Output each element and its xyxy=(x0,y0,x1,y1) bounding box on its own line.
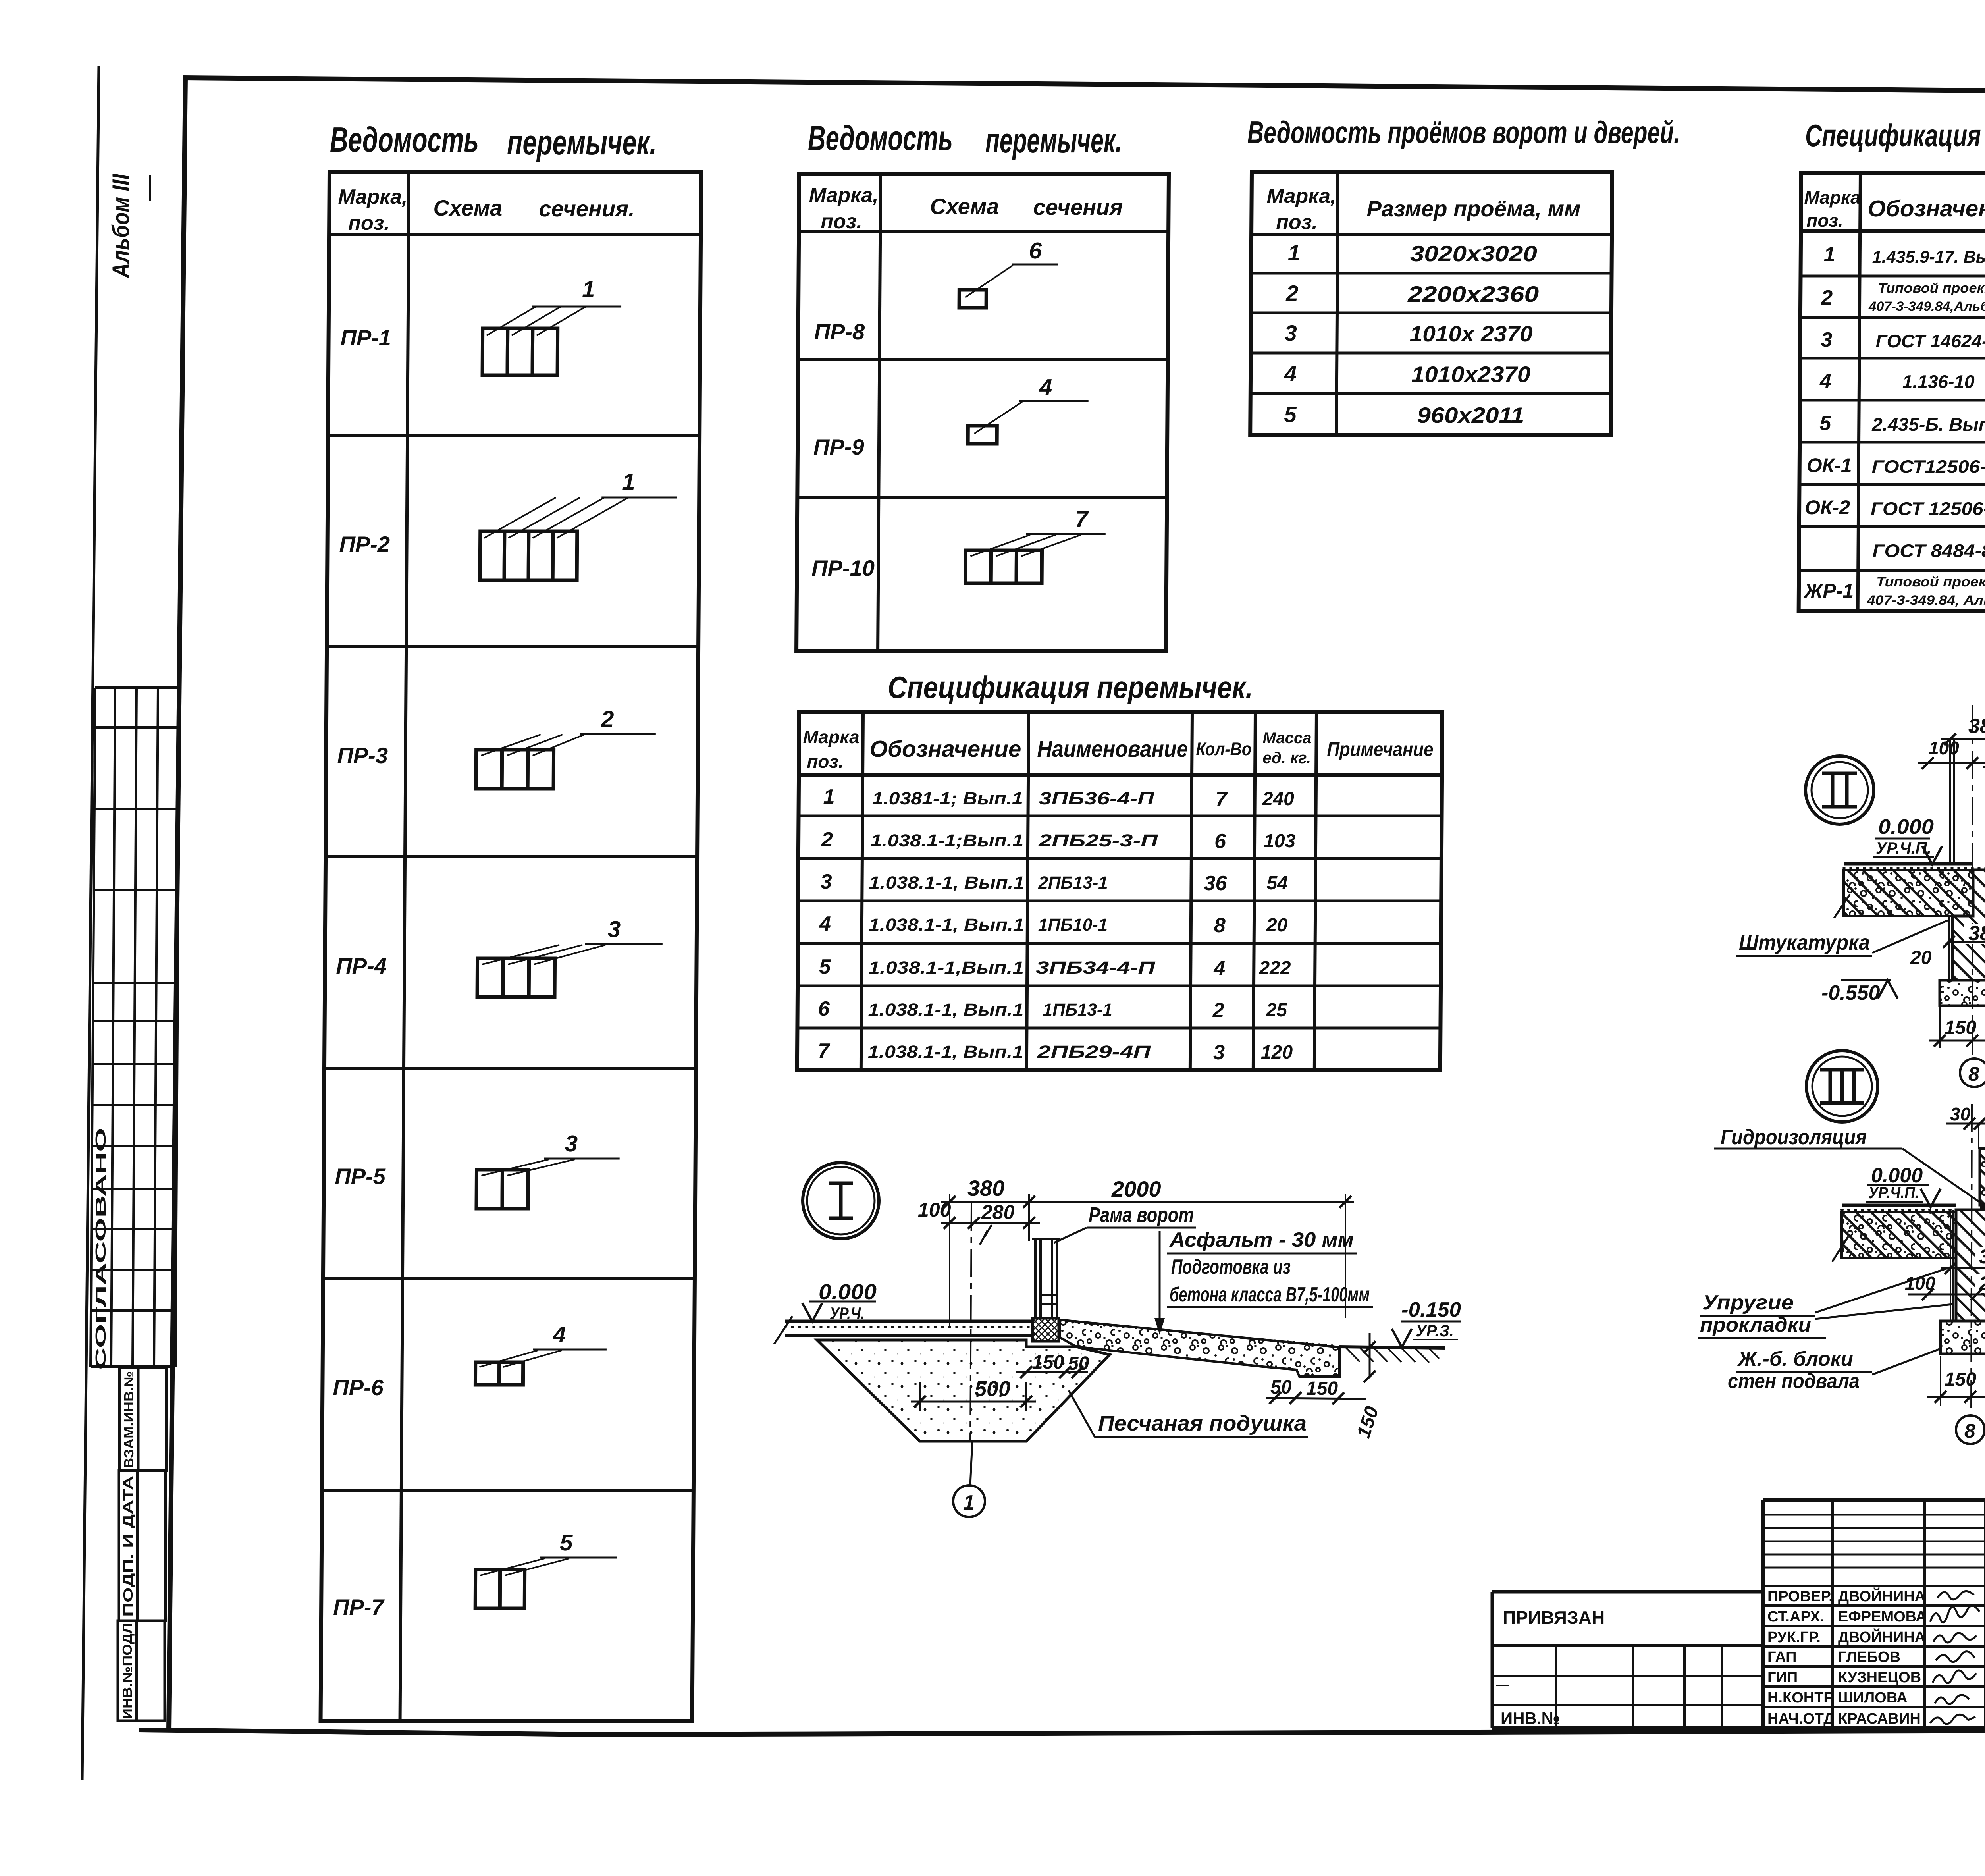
svg-text:3ПБ34-4-П: 3ПБ34-4-П xyxy=(1036,958,1156,978)
svg-text:ПР-5: ПР-5 xyxy=(335,1164,386,1189)
svg-text:ПОДП. И ДАТА: ПОДП. И ДАТА xyxy=(121,1476,135,1617)
svg-text:4: 4 xyxy=(1284,361,1297,386)
svg-text:перемычек.: перемычек. xyxy=(507,123,657,162)
svg-text:ШИЛОВА: ШИЛОВА xyxy=(1838,1689,1908,1706)
svg-text:Обозначение: Обозначение xyxy=(1867,196,1985,222)
svg-text:ПР-9: ПР-9 xyxy=(813,434,864,459)
node I sand pit xyxy=(817,1340,1110,1441)
svg-text:0.000: 0.000 xyxy=(819,1280,877,1304)
node I gate sill crosshatched pad xyxy=(1033,1318,1059,1341)
svg-text:1.038.1-1, Вып.1: 1.038.1-1, Вып.1 xyxy=(869,873,1024,893)
margin stamp boxes xyxy=(118,1368,166,1721)
svg-text:ПР-3: ПР-3 xyxy=(337,743,388,768)
svg-text:3: 3 xyxy=(565,1131,578,1157)
svg-text:150: 150 xyxy=(1945,1369,1976,1390)
node I break mark xyxy=(980,1225,992,1245)
svg-text:ПР-7: ПР-7 xyxy=(333,1595,385,1620)
svg-text:3: 3 xyxy=(1213,1041,1225,1064)
svg-text:Альбом III: Альбом III xyxy=(108,174,134,279)
svg-text:6: 6 xyxy=(1029,238,1042,264)
svg-text:50: 50 xyxy=(1270,1377,1292,1398)
svg-text:поз.: поз. xyxy=(807,751,844,772)
node III bubble xyxy=(1806,1051,1878,1122)
title block borders xyxy=(1492,1500,1985,1728)
svg-text:ГОСТ 12506-81: ГОСТ 12506-81 xyxy=(1871,498,1985,519)
svg-text:ГИП: ГИП xyxy=(1767,1669,1798,1686)
svg-text:960х2011: 960х2011 xyxy=(1417,403,1524,428)
svg-text:сечения: сечения xyxy=(1033,195,1123,220)
svg-text:Марка: Марка xyxy=(803,727,859,747)
svg-text:3: 3 xyxy=(820,870,832,893)
title block signatures xyxy=(1930,1591,1979,1724)
svg-text:1.038.1-1;Вып.1: 1.038.1-1;Вып.1 xyxy=(871,831,1023,850)
svg-text:ГОСТ12506-81: ГОСТ12506-81 xyxy=(1872,456,1985,477)
svg-text:УР.Ч.П.: УР.Ч.П. xyxy=(1868,1183,1919,1202)
node III dim 280 100 xyxy=(1975,1274,1985,1293)
svg-text:поз.: поз. xyxy=(1806,210,1843,231)
svg-text:ОК-2: ОК-2 xyxy=(1805,496,1850,519)
svg-text:407-3-349.84,Альбом II: 407-3-349.84,Альбом II xyxy=(1868,299,1985,314)
svg-text:54: 54 xyxy=(1266,873,1288,894)
svg-text:СТ.АРХ.: СТ.АРХ. xyxy=(1767,1608,1824,1625)
svg-text:2ПБ13-1: 2ПБ13-1 xyxy=(1038,873,1108,893)
svg-text:СОГЛАСОВАНО: СОГЛАСОВАНО xyxy=(93,1128,109,1370)
svg-text:Наименование: Наименование xyxy=(1037,736,1188,762)
svg-text:Кол-Во: Кол-Во xyxy=(1196,738,1251,759)
svg-text:1: 1 xyxy=(963,1491,975,1514)
svg-text:1ПБ13-1: 1ПБ13-1 xyxy=(1043,1000,1113,1020)
svg-text:1.038.1-1, Вып.1: 1.038.1-1, Вып.1 xyxy=(868,1042,1023,1062)
svg-text:1: 1 xyxy=(622,469,635,495)
svg-text:2ПБ25-3-П: 2ПБ25-3-П xyxy=(1038,831,1158,850)
svg-text:30: 30 xyxy=(1950,1104,1971,1124)
node II detail bubble 8 xyxy=(1960,1059,1985,1087)
svg-text:222: 222 xyxy=(1258,958,1291,979)
svg-text:прокладки: прокладки xyxy=(1700,1313,1811,1336)
svg-text:Ведомость проёмов ворот и двер: Ведомость проёмов ворот и дверей. xyxy=(1247,115,1680,150)
svg-text:УР.Ч.: УР.Ч. xyxy=(830,1304,865,1323)
table C door opening schedule grid xyxy=(1250,172,1612,435)
svg-text:Схема: Схема xyxy=(433,195,502,220)
svg-text:Рама ворот: Рама ворот xyxy=(1089,1203,1194,1227)
svg-text:1: 1 xyxy=(1288,240,1301,265)
node III dim 380 in wall xyxy=(1975,1247,1985,1267)
node II plaster strip xyxy=(1948,916,1950,979)
svg-text:Масса: Масса xyxy=(1262,729,1311,747)
title block roles xyxy=(1767,1587,1927,1727)
svg-text:3: 3 xyxy=(1821,328,1832,351)
svg-text:бетона класса В7,5-100мм: бетона класса В7,5-100мм xyxy=(1170,1283,1370,1306)
svg-text:сечения.: сечения. xyxy=(539,196,635,221)
frame bottom border xyxy=(139,1729,1985,1735)
svg-text:поз.: поз. xyxy=(821,210,862,233)
svg-text:240: 240 xyxy=(1262,789,1295,810)
svg-text:ПР-10: ПР-10 xyxy=(811,555,875,580)
table B lintel schedule grid xyxy=(796,174,1169,651)
svg-text:100: 100 xyxy=(918,1199,951,1221)
node I ramp band xyxy=(1060,1320,1339,1377)
node I ground line and hatch xyxy=(1339,1347,1445,1348)
svg-text:1: 1 xyxy=(582,276,595,302)
node III waterproofing seals xyxy=(1980,1203,1985,1209)
svg-text:7: 7 xyxy=(818,1039,830,1062)
svg-text:ПР-1: ПР-1 xyxy=(340,325,391,350)
svg-text:8: 8 xyxy=(1214,914,1226,937)
svg-text:ГАП: ГАП xyxy=(1767,1649,1796,1666)
node II dim 380 in wall xyxy=(1964,924,1985,944)
svg-text:ДВОЙНИНА: ДВОЙНИНА xyxy=(1838,1628,1925,1646)
svg-text:1.435.9-17. Вып.1: 1.435.9-17. Вып.1 xyxy=(1872,247,1985,267)
svg-text:380: 380 xyxy=(967,1176,1004,1201)
svg-text:36: 36 xyxy=(1204,872,1227,895)
node II foundation block xyxy=(1940,980,1985,1006)
node I gate frame xyxy=(1032,1239,1060,1318)
svg-text:РУК.ГР.: РУК.ГР. xyxy=(1767,1629,1821,1646)
svg-text:3: 3 xyxy=(608,916,621,942)
node II door frame xyxy=(1950,734,1985,868)
node II wall axis xyxy=(1972,705,1973,1057)
svg-text:500: 500 xyxy=(975,1377,1010,1401)
svg-text:ЖР-1: ЖР-1 xyxy=(1803,580,1854,602)
svg-text:7: 7 xyxy=(1075,506,1089,532)
svg-text:2: 2 xyxy=(1285,281,1299,306)
table E lintel specification grid xyxy=(797,712,1442,1070)
svg-text:8: 8 xyxy=(1964,1420,1975,1442)
svg-text:4: 4 xyxy=(1039,374,1052,400)
svg-text:Спецификация перемычек.: Спецификация перемычек. xyxy=(888,670,1253,705)
svg-text:20: 20 xyxy=(1910,947,1932,968)
svg-text:1.136-10: 1.136-10 xyxy=(1902,371,1975,392)
svg-text:5: 5 xyxy=(560,1530,573,1556)
table D opening elements specification grid xyxy=(1799,173,1985,611)
svg-text:280: 280 xyxy=(981,1201,1015,1223)
svg-text:ГОСТ 8484-82: ГОСТ 8484-82 xyxy=(1872,540,1985,561)
svg-text:Спецификация элементов заполне: Спецификация элементов заполнения проёмо… xyxy=(1805,118,1985,153)
svg-text:ПРИВЯЗАН: ПРИВЯЗАН xyxy=(1503,1607,1605,1628)
svg-text:150: 150 xyxy=(1306,1378,1338,1399)
svg-text:Упругие: Упругие xyxy=(1702,1291,1794,1314)
svg-text:Гидроизоляция: Гидроизоляция xyxy=(1721,1125,1867,1149)
svg-text:Н.КОНТР: Н.КОНТР xyxy=(1767,1689,1834,1706)
node III floor slab left xyxy=(1842,1212,1956,1258)
svg-text:120: 120 xyxy=(1261,1042,1293,1063)
svg-text:1.038.1-1, Вып.1: 1.038.1-1, Вып.1 xyxy=(869,915,1024,935)
node III wall axis xyxy=(1971,1104,1972,1413)
svg-text:7: 7 xyxy=(1216,788,1228,811)
svg-text:Ж.-б. блоки: Ж.-б. блоки xyxy=(1737,1348,1853,1371)
svg-text:2: 2 xyxy=(601,706,614,732)
svg-text:ПР-4: ПР-4 xyxy=(336,953,387,978)
svg-text:150: 150 xyxy=(1032,1352,1064,1373)
svg-text:ВЗАМ.ИНВ.№: ВЗАМ.ИНВ.№ xyxy=(121,1371,136,1468)
svg-text:Схема: Схема xyxy=(930,194,999,219)
title block привязан box xyxy=(1492,1592,1763,1728)
svg-text:стен подвала: стен подвала xyxy=(1728,1370,1860,1393)
svg-text:-0.550: -0.550 xyxy=(1821,981,1880,1005)
svg-text:УР.З.: УР.З. xyxy=(1416,1321,1454,1340)
svg-text:-0.150: -0.150 xyxy=(1401,1298,1461,1321)
svg-text:2: 2 xyxy=(821,828,833,851)
svg-text:Ведомость: Ведомость xyxy=(330,120,479,159)
svg-text:Марка,: Марка, xyxy=(809,184,879,207)
svg-text:380: 380 xyxy=(1968,715,1985,738)
svg-text:8: 8 xyxy=(1968,1063,1979,1085)
svg-text:НАЧ.ОТД: НАЧ.ОТД xyxy=(1767,1710,1834,1727)
sheet left edge line xyxy=(82,66,99,1780)
svg-text:Подготовка из: Подготовка из xyxy=(1171,1255,1291,1278)
svg-text:Песчаная подушка: Песчаная подушка xyxy=(1098,1411,1307,1435)
svg-text:ДВОЙНИНА: ДВОЙНИНА xyxy=(1838,1587,1925,1605)
svg-text:2ПБ29-4П: 2ПБ29-4П xyxy=(1037,1042,1152,1062)
svg-text:3: 3 xyxy=(1284,320,1297,345)
node I bubble xyxy=(803,1163,879,1239)
svg-text:Штукатурка: Штукатурка xyxy=(1739,931,1870,954)
node II basement wall xyxy=(1952,870,1985,980)
node III basement wall xyxy=(1956,1210,1985,1321)
svg-text:2: 2 xyxy=(1821,286,1833,309)
node III wall panel xyxy=(1980,1149,1985,1205)
svg-text:1ПБ10-1: 1ПБ10-1 xyxy=(1038,915,1108,935)
node II floor slab left xyxy=(1844,870,1973,916)
svg-text:1.038.1-1,Вып.1: 1.038.1-1,Вып.1 xyxy=(868,958,1024,978)
node III detail bubble 8 xyxy=(1956,1415,1985,1444)
svg-text:ПР-6: ПР-6 xyxy=(333,1375,384,1400)
svg-text:ПР-8: ПР-8 xyxy=(814,319,865,344)
svg-text:3020х3020: 3020х3020 xyxy=(1410,241,1537,266)
svg-text:2: 2 xyxy=(1212,999,1224,1022)
svg-text:ИНВ.№: ИНВ.№ xyxy=(1501,1709,1560,1728)
svg-text:Обозначение: Обозначение xyxy=(869,736,1021,762)
svg-text:2000: 2000 xyxy=(1111,1176,1161,1201)
node III foundation block xyxy=(1941,1321,1985,1354)
svg-text:ПРОВЕР.: ПРОВЕР. xyxy=(1767,1588,1833,1605)
node I floor slab xyxy=(785,1320,1033,1323)
svg-text:поз.: поз. xyxy=(1276,211,1318,234)
svg-text:ОК-1: ОК-1 xyxy=(1807,454,1852,476)
svg-text:4: 4 xyxy=(1819,370,1831,393)
table A lintel schedule grid xyxy=(321,172,701,1721)
svg-text:4: 4 xyxy=(1213,957,1225,980)
svg-text:Типовой проект: Типовой проект xyxy=(1878,281,1985,296)
margin approval stamp grid xyxy=(91,688,179,1367)
svg-text:0.000: 0.000 xyxy=(1878,816,1934,839)
svg-text:Марка,: Марка, xyxy=(338,185,407,208)
svg-text:5: 5 xyxy=(1284,402,1297,427)
svg-text:25: 25 xyxy=(1266,1000,1288,1021)
svg-text:1.0381-1; Вып.1: 1.0381-1; Вып.1 xyxy=(872,789,1023,808)
svg-text:1010х2370: 1010х2370 xyxy=(1411,362,1530,387)
node I detail bubble 1 xyxy=(970,1441,972,1485)
svg-text:Примечание: Примечание xyxy=(1327,738,1433,760)
svg-text:Типовой проект: Типовой проект xyxy=(1876,575,1985,590)
svg-text:103: 103 xyxy=(1264,831,1296,852)
node II bubble xyxy=(1806,756,1874,824)
frame top border xyxy=(183,78,1985,94)
svg-text:2.435-Б. Вып. 1: 2.435-Б. Вып. 1 xyxy=(1871,414,1985,435)
svg-text:1: 1 xyxy=(823,785,835,808)
svg-text:Марка,: Марка, xyxy=(1266,185,1336,208)
svg-text:407-3-349.84, Альб. II: 407-3-349.84, Альб. II xyxy=(1867,593,1985,608)
svg-text:ЕФРЕМОВА: ЕФРЕМОВА xyxy=(1838,1608,1927,1625)
svg-text:1: 1 xyxy=(1824,243,1835,266)
svg-text:380: 380 xyxy=(1979,1246,1985,1268)
node I extension lines xyxy=(950,1194,1345,1327)
svg-text:Ведомость: Ведомость xyxy=(808,118,953,158)
frame left border xyxy=(169,76,185,1732)
svg-text:ПР-2: ПР-2 xyxy=(339,532,390,557)
svg-text:ИНВ.№ПОДЛ: ИНВ.№ПОДЛ xyxy=(120,1623,135,1719)
svg-text:100: 100 xyxy=(1905,1273,1935,1294)
svg-text:5: 5 xyxy=(1819,412,1831,435)
svg-text:ГЛЕБОВ: ГЛЕБОВ xyxy=(1838,1649,1900,1666)
svg-text:Асфальт - 30 мм: Асфальт - 30 мм xyxy=(1169,1228,1354,1251)
svg-text:6: 6 xyxy=(1214,830,1226,853)
svg-text:ГОСТ 14624-84: ГОСТ 14624-84 xyxy=(1875,331,1985,351)
node III elastic gaskets xyxy=(1950,1210,1951,1321)
svg-text:поз.: поз. xyxy=(348,212,390,235)
svg-text:150: 150 xyxy=(1945,1017,1976,1038)
svg-text:1.038.1-1, Вып.1: 1.038.1-1, Вып.1 xyxy=(868,1000,1024,1020)
svg-text:перемычек.: перемычек. xyxy=(985,121,1122,160)
svg-text:КРАСАВИН: КРАСАВИН xyxy=(1838,1710,1921,1727)
svg-text:2200х2360: 2200х2360 xyxy=(1407,281,1539,307)
svg-text:4: 4 xyxy=(553,1322,566,1348)
svg-text:ед. кг.: ед. кг. xyxy=(1262,749,1311,767)
svg-text:Марка: Марка xyxy=(1804,187,1860,208)
svg-text:КУЗНЕЦОВ: КУЗНЕЦОВ xyxy=(1838,1669,1921,1686)
svg-text:1010х 2370: 1010х 2370 xyxy=(1409,321,1532,346)
svg-text:20: 20 xyxy=(1266,915,1288,936)
node I axis line xyxy=(970,1203,971,1441)
svg-text:3ПБ36-4-П: 3ПБ36-4-П xyxy=(1039,789,1155,808)
svg-text:4: 4 xyxy=(819,912,831,935)
svg-text:6: 6 xyxy=(818,997,830,1020)
svg-text:5: 5 xyxy=(819,955,831,978)
svg-text:Размер проёма, мм: Размер проёма, мм xyxy=(1366,196,1580,221)
